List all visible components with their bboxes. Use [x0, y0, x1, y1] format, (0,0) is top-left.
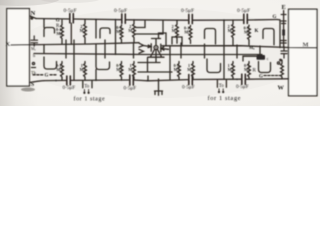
wire S to bottom bus: [29, 81, 44, 83]
Tb mark near left box: [31, 70, 37, 75]
stage 4 : crossover hook upper: [263, 29, 274, 45]
label R8 value: [128, 63, 134, 72]
label R stage 1: [56, 24, 60, 29]
svg-text:G: G: [259, 75, 263, 80]
svg-text:Mₐ: Mₐ: [228, 28, 234, 33]
transistor V1 stem and top bar: [152, 39, 161, 46]
resistor R1 0.1M (stage1 top): [61, 20, 64, 44]
capacitor at right box edge: [281, 47, 287, 59]
svg-text:K: K: [255, 29, 259, 34]
stage 4 : resistor R13 2M (top): [232, 20, 235, 45]
terminal N: [31, 10, 36, 17]
resistor R6 2M (stage2 top): [133, 20, 136, 43]
coupling capacitor C4 0.5uF (top): [244, 14, 248, 23]
terminal X: [6, 41, 11, 48]
label R9 value: [172, 24, 178, 33]
coupling capacitor C5 0.5uF (bottom): [67, 76, 71, 85]
label R5 value: [116, 25, 122, 34]
svg-text:0·5μF: 0·5μF: [64, 8, 77, 14]
svg-text:Mₐ: Mₐ: [174, 67, 180, 72]
terminal E: [282, 4, 286, 11]
terminal S: [31, 81, 35, 88]
stage 4 : crossover hook lower: [259, 62, 271, 73]
resistor R16 0.1M (stage4 bottom): [248, 62, 251, 80]
coupling capacitor C3 0.5uF (top): [189, 14, 193, 23]
mid rail upper wire right section: [162, 46, 317, 48]
resistor R11 2M (stage3 bottom): [178, 62, 181, 80]
input series capacitor on X wire: [31, 36, 38, 46]
terminal dot under N: [31, 17, 33, 19]
left line box (input transformer): [7, 9, 30, 86]
label C at output blob: [267, 56, 269, 61]
stage 1 : mid column wires: [44, 40, 74, 80]
resistor R12 1M (stage3 bottom): [192, 62, 195, 80]
svg-text:c: c: [267, 56, 269, 61]
bottom bus wire: [44, 76, 289, 81]
svg-text:Mₐ: Mₐ: [128, 28, 134, 33]
svg-text:Mₐ: Mₐ: [56, 31, 62, 36]
label R3 value: [56, 63, 62, 72]
resistor R2 2M (stage1 top): [84, 19, 87, 44]
svg-text:0·5μF: 0·5μF: [114, 8, 127, 14]
resistor R14 0.1M (stage4 below cap): [248, 25, 251, 45]
stage 1 : crossover hook upper: [44, 28, 55, 37]
svg-text:Mₐ: Mₐ: [187, 67, 193, 72]
coupling capacitor C8 0.5uF (bottom): [242, 74, 246, 84]
svg-text:G: G: [56, 19, 60, 24]
svg-text:X: X: [6, 41, 11, 48]
label C1 0.5uF: [64, 8, 77, 14]
stage 1 : vertical wire from top bus: [43, 19, 45, 28]
svg-text:Mₐ: Mₐ: [249, 45, 255, 50]
label C3 0.5uF: [181, 8, 194, 14]
label R4 value: [80, 63, 86, 72]
small o marks right: [277, 59, 281, 64]
svg-text:Mₐ: Mₐ: [56, 67, 62, 72]
transistor V1 base legs and bar: [148, 49, 164, 57]
svg-text:Mₐ: Mₐ: [128, 67, 134, 72]
label Ma near M wire: [249, 45, 255, 50]
small tick mark left edge: [32, 67, 36, 69]
small b mark left: [33, 53, 36, 58]
resistor R4 1M (stage1 bottom): [84, 62, 87, 81]
svg-text:Tb: Tb: [31, 70, 37, 75]
label G near top right: [273, 15, 277, 20]
caption: for 1 stage (left): [74, 96, 106, 103]
center nested corner wires upper: [136, 21, 163, 34]
label R11 value: [174, 63, 180, 72]
label R1 value: [56, 27, 62, 36]
stage 2 : crossover hook lower: [96, 44, 110, 80]
top bus wire: [36, 19, 277, 21]
label R10 value: [184, 26, 190, 35]
stage 2 : mid column wires: [105, 40, 134, 58]
label C4 0.5uF: [237, 8, 250, 14]
label G grid return stage 1: [45, 74, 49, 79]
emitter feed chevrons: [139, 43, 144, 53]
svg-text:Mₐ: Mₐ: [228, 67, 234, 72]
label C6 0.5uF: [124, 85, 137, 91]
resistor R5 0.1M (stage2 top): [120, 25, 123, 43]
stage 3 : top bus drop: [223, 20, 225, 44]
resistor R15 2M (stage4 bottom): [232, 62, 235, 80]
stage 1 : crossover hook lower: [44, 57, 57, 69]
terminal W: [278, 84, 285, 91]
svg-text:Mₐ: Mₐ: [244, 30, 250, 35]
svg-text:W: W: [278, 84, 285, 91]
mid rail lower wire: [34, 54, 262, 55]
small blob at right box edge: [281, 11, 286, 48]
ground symbol: [155, 91, 163, 95]
dashed grid lead stage 1: [33, 74, 57, 76]
stage 2 : crossover hook upper: [100, 28, 110, 38]
transistor V1 point-contact body: [151, 44, 161, 52]
coupling capacitor C6 0.5uF (bottom): [130, 75, 134, 85]
label G' dashed lead right: [259, 75, 263, 80]
svg-text:0·5μF: 0·5μF: [237, 8, 250, 14]
svg-text:To: To: [219, 84, 225, 89]
dashed grid lead stage 4: [264, 75, 281, 77]
label R12 value: [187, 63, 193, 72]
label C8 0.5uF: [236, 84, 249, 90]
stage 2 : vertical wire from top bus: [95, 20, 97, 39]
small circle mark left edge: [32, 62, 34, 64]
label Ma at input cap: [31, 46, 37, 51]
center lower wires: [138, 46, 172, 79]
collector corner wire stage 4: [243, 56, 256, 61]
svg-text:0·5μF: 0·5μF: [63, 85, 76, 91]
mid rail upper wire: [11, 43, 139, 45]
svg-text:Mₐ: Mₐ: [80, 67, 86, 72]
stage 3 : mid column wires: [181, 43, 224, 79]
junction dots: [43, 18, 238, 82]
svg-text:E: E: [282, 4, 286, 11]
svg-text:0·5μF: 0·5μF: [182, 84, 195, 90]
resistor R8 1M (stage2 bottom): [133, 62, 136, 81]
label R7 value: [116, 63, 122, 72]
coupling capacitor C7 0.5uF (bottom): [189, 75, 193, 85]
svg-text:Mₐ: Mₐ: [244, 67, 250, 72]
label C5 0.5uF: [63, 85, 76, 91]
svg-text:Mₐ: Mₐ: [172, 28, 178, 33]
label R6 value: [128, 24, 134, 33]
resistor R3 0.1M (stage1 bottom): [61, 62, 64, 81]
label C2 0.5uF: [114, 8, 127, 14]
svg-text:G: G: [45, 74, 49, 79]
To marker 2 brackets: [217, 80, 226, 87]
coupling capacitor C2 0.5uF (top): [122, 14, 126, 23]
coupling capacitor C1 0.5uF (top): [70, 14, 74, 23]
stage 3 : crossover hook lower: [207, 59, 221, 73]
svg-text:Mₐ: Mₐ: [116, 29, 122, 34]
label R16 value: [244, 63, 250, 72]
svg-text:Mₐ: Mₐ: [116, 67, 122, 72]
wire top bus to E drop: [277, 20, 280, 48]
stage 3 : crossover hook upper: [205, 29, 216, 45]
label R13 value: [228, 24, 234, 33]
label G grid stage 1: [56, 19, 60, 24]
To marker 2 ticks: [218, 89, 224, 93]
transistor V1 emitter whisker: [143, 45, 151, 48]
wire N to top bus: [30, 16, 36, 19]
svg-text:To: To: [84, 85, 90, 90]
label R15 value: [228, 63, 234, 72]
svg-text:0·5μF: 0·5μF: [236, 84, 249, 90]
transistor V1 collector whisker: [161, 47, 169, 50]
terminal M: [303, 41, 309, 48]
svg-text:Mₐ: Mₐ: [80, 28, 86, 33]
right line box (output transformer): [289, 9, 318, 96]
stage 2 : column x=115: [115, 21, 117, 55]
svg-text:for 1 stage: for 1 stage: [74, 96, 106, 103]
resistor R17 at right box: [281, 60, 284, 79]
svg-text:for 1 stage: for 1 stage: [208, 95, 242, 102]
resistor R10 0.1M (stage3 below cap): [189, 25, 192, 43]
resistor R9 2M (stage3 top): [176, 20, 179, 43]
label R2 value: [80, 24, 86, 33]
To marker 1 text: [84, 85, 90, 90]
label C7 0.5uF: [182, 84, 195, 90]
ground lead: [158, 79, 160, 91]
label R14 value: [244, 26, 250, 35]
resistor R7 0.1M (stage2 bottom): [120, 62, 123, 81]
svg-text:0·5μF: 0·5μF: [181, 8, 194, 14]
wire drop under C1: [70, 23, 72, 44]
stage 4 : mid column wires: [237, 45, 260, 58]
To marker 1 ticks: [84, 90, 90, 94]
label K node: [255, 29, 259, 34]
stage 4 : output blob (transformer core): [257, 55, 266, 60]
stage 3 : nested corner left: [159, 33, 183, 46]
caption: for 1 stage (right): [208, 95, 242, 102]
svg-text:0·5μF: 0·5μF: [124, 85, 137, 91]
To marker 1 brackets: [83, 81, 92, 88]
To marker 2 text: [219, 84, 225, 89]
label R near stage4: [253, 69, 257, 74]
svg-text:G: G: [273, 15, 277, 20]
svg-text:Mₐ: Mₐ: [184, 30, 190, 35]
